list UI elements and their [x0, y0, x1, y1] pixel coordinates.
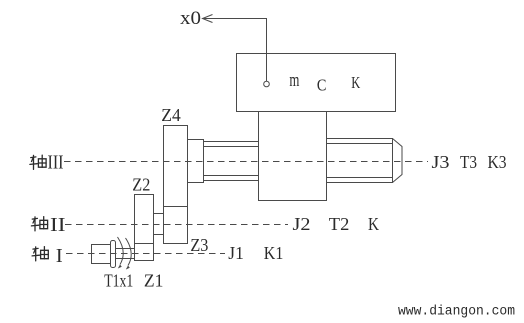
shaft II centerline — [65, 224, 288, 226]
motor box — [237, 54, 396, 112]
svg-text:T3: T3 — [460, 152, 477, 172]
svg-text:C: C — [317, 76, 327, 95]
coupling flange — [111, 241, 116, 268]
lead screw body — [327, 139, 393, 183]
coupling arc 1 — [118, 237, 124, 269]
label 轴III — [30, 152, 64, 174]
svg-text:II: II — [50, 214, 66, 236]
collar on shaft III — [188, 140, 204, 183]
shaft I stub bottom line — [116, 258, 135, 260]
arrowhead — [203, 15, 213, 23]
svg-text:K: K — [368, 214, 379, 234]
coupling arc 2 — [126, 238, 132, 270]
svg-text:III: III — [48, 152, 64, 174]
feedback arrow wire — [203, 19, 267, 82]
svg-text:T2: T2 — [329, 214, 350, 234]
svg-text:www.diangon.com: www.diangon.com — [398, 304, 515, 320]
label 轴II — [31, 214, 65, 236]
gearbox block — [259, 112, 327, 201]
svg-text:J2: J2 — [293, 214, 311, 234]
svg-text:J3: J3 — [432, 152, 450, 172]
screw inner line bottom — [327, 177, 393, 179]
pointer circle — [264, 81, 270, 87]
shaft I stub top line — [116, 248, 135, 250]
svg-text:Z2: Z2 — [132, 175, 150, 195]
gear Z1 — [135, 244, 154, 261]
shaft II sleeve between Z2 and Z3 — [154, 214, 164, 235]
svg-text:I: I — [56, 245, 63, 267]
gear Z2 — [135, 195, 154, 244]
label 轴 I — [32, 245, 63, 267]
sleeve inner line bottom — [204, 175, 259, 177]
gear Z3 — [164, 207, 188, 244]
screw inner line top — [327, 143, 393, 145]
svg-text:T1x1: T1x1 — [104, 271, 133, 291]
sleeve inner line top — [204, 146, 259, 148]
svg-text:Z4: Z4 — [161, 105, 181, 125]
svg-text:K3: K3 — [488, 152, 507, 172]
svg-text:x0: x0 — [180, 8, 201, 29]
shaft I centerline — [66, 253, 225, 255]
svg-text:Z3: Z3 — [190, 235, 208, 255]
input shaft on shaft I — [92, 245, 111, 264]
shaft III sleeve — [204, 142, 259, 181]
shaft III centerline — [64, 161, 428, 163]
svg-text:K: K — [351, 73, 361, 92]
svg-text:J1: J1 — [228, 243, 244, 263]
svg-text:m: m — [289, 70, 299, 91]
screw end chamfer — [393, 139, 403, 183]
svg-text:K1: K1 — [264, 243, 284, 263]
svg-text:Z1: Z1 — [144, 271, 164, 291]
gear Z4 — [164, 126, 188, 207]
